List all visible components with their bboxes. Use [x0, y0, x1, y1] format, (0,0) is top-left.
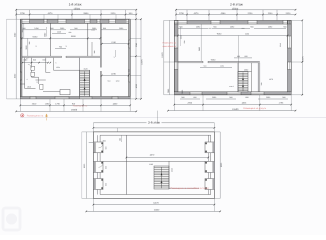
- page faint rule: [20, 117, 326, 119]
- svg-text:3460: 3460: [198, 47, 201, 51]
- plan 2 interior vertical dim line: [200, 24, 202, 61]
- plan 3 inner wall bottom: [100, 194, 211, 196]
- svg-text:1490: 1490: [119, 27, 123, 30]
- svg-text:940: 940: [128, 69, 131, 72]
- plan 3 stair enclosure: [168, 161, 170, 189]
- plan 2 interior wall vertical room divider: [257, 63, 259, 92]
- plan 3 title ticks: [156, 111, 158, 123]
- plan 1 interior wall vertical right room (double): [99, 23, 101, 67]
- svg-text:900: 900: [204, 65, 207, 68]
- svg-text:1200: 1200: [116, 79, 120, 82]
- svg-text:1490: 1490: [92, 27, 96, 30]
- svg-text:940: 940: [33, 58, 36, 61]
- plan 1 bathroom door arc: [25, 58, 29, 62]
- plan 3 right dormers: [205, 142, 214, 153]
- svg-text:600: 600: [193, 96, 196, 99]
- plan 2 right outside dimension chain: [301, 20, 303, 94]
- svg-text:1: 1: [113, 56, 114, 59]
- svg-text:15500: 15500: [232, 108, 239, 111]
- plan 1 room dimension line upper: [22, 37, 100, 39]
- svg-text:900: 900: [104, 166, 107, 169]
- svg-text:2070: 2070: [269, 78, 273, 81]
- plan 1 interior vertical dim left wall side: [23, 23, 25, 38]
- svg-text:900: 900: [250, 26, 253, 29]
- plan 2 bottom exterior wall: [174, 94, 291, 96]
- svg-text:2: 2: [35, 45, 36, 48]
- plan 3 inner wall right (double): [207, 135, 209, 194]
- svg-text:2865: 2865: [167, 89, 170, 93]
- svg-text:910: 910: [42, 58, 45, 61]
- plan 3 staircase: [154, 166, 169, 189]
- svg-text:900: 900: [50, 27, 53, 30]
- svg-text:900: 900: [282, 96, 285, 99]
- svg-text:4630: 4630: [71, 35, 77, 38]
- svg-text:9000: 9000: [83, 164, 86, 168]
- svg-text:900: 900: [213, 26, 216, 29]
- plan 1 middle room small dim: [52, 33, 66, 35]
- svg-text:900: 900: [22, 27, 25, 30]
- plan 3 left dormers: [93, 142, 103, 153]
- svg-text:www.allbest.ru/: www.allbest.ru/: [163, 45, 177, 48]
- svg-text:3240: 3240: [13, 33, 16, 37]
- plan 1 right side dimension chains: [135, 10, 137, 99]
- plan 1 top dim extension lines: [15, 10, 17, 19]
- svg-text:1490: 1490: [212, 96, 216, 99]
- svg-text:1140: 1140: [245, 32, 249, 35]
- plan 1 stair walls: [79, 58, 81, 97]
- plan 1 bathroom fixtures: [31, 66, 35, 70]
- svg-text:2440: 2440: [57, 31, 61, 34]
- plan 1 interior wall horizontal main: [22, 55, 62, 57]
- plan 3 right dimension chain: [219, 132, 221, 199]
- svg-text:15500: 15500: [154, 209, 160, 212]
- svg-text:900: 900: [103, 140, 106, 143]
- svg-text:10970: 10970: [302, 56, 305, 61]
- plan 2 big room dimension line: [178, 35, 288, 37]
- plan 1 interior wall vertical left room: [49, 23, 51, 56]
- plan 1 bathroom extra partition: [36, 79, 46, 81]
- plan 3 bottom dimension chains: [92, 198, 94, 211]
- svg-text:1490: 1490: [268, 26, 272, 29]
- svg-text:1520: 1520: [83, 68, 87, 71]
- plan 3 small dim upper left: [89, 141, 100, 143]
- plan 2 left outside dimension chains: [163, 20, 165, 94]
- plan 1 allbest watermark: [21, 114, 24, 117]
- plan 1 bottom overall dimension: [16, 110, 136, 112]
- plan 1 hall partition: [45, 58, 47, 73]
- svg-text:2-й этаж: 2-й этаж: [230, 2, 244, 6]
- svg-text:1490: 1490: [266, 96, 270, 99]
- plan 3 top dimension line: [93, 127, 214, 129]
- plan 2 top exterior wall: [174, 19, 291, 21]
- plan 3 top small vertical dim: [121, 135, 123, 142]
- plan 1 staircase: [80, 70, 90, 96]
- svg-text:740: 740: [59, 46, 62, 49]
- svg-text:4250: 4250: [13, 74, 16, 78]
- svg-text:1490: 1490: [196, 26, 200, 29]
- svg-text:7040: 7040: [217, 32, 223, 35]
- svg-text:1490: 1490: [60, 27, 64, 30]
- plan 1 top exterior wall: [20, 18, 130, 20]
- plan 2 stair left wall: [237, 63, 239, 92]
- svg-text:2540: 2540: [43, 33, 46, 37]
- svg-text:900: 900: [74, 27, 77, 30]
- svg-text:910: 910: [108, 79, 111, 82]
- svg-text:7240: 7240: [211, 58, 217, 61]
- svg-text:2240: 2240: [279, 43, 282, 47]
- svg-text:1-й этаж: 1-й этаж: [69, 2, 83, 6]
- plan 2 bottom overall dimension: [168, 110, 296, 112]
- svg-text:900: 900: [104, 183, 107, 186]
- plan 3 title 3-y etazh: [93, 122, 146, 124]
- svg-text:900: 900: [104, 147, 107, 150]
- svg-text:Размещено на www.allbest.ru/: Размещено на www.allbest.ru/ отчет: [171, 187, 210, 190]
- plan 1 bathroom walls: [24, 58, 26, 89]
- plan 1 interior wall vertical corridor: [87, 23, 89, 56]
- svg-text:910: 910: [21, 30, 24, 33]
- svg-text:14570: 14570: [153, 201, 159, 204]
- svg-text:600: 600: [237, 55, 240, 58]
- svg-text:15500: 15500: [71, 109, 78, 112]
- svg-text:пом.1: пом.1: [229, 85, 234, 88]
- svg-text:4250: 4250: [135, 84, 138, 88]
- svg-text:1520: 1520: [56, 66, 60, 69]
- plan 1 left dimension chain: [15, 10, 17, 99]
- svg-text:3: 3: [65, 45, 66, 48]
- svg-text:1430: 1430: [244, 68, 248, 71]
- svg-text:Размещено на: Размещено на: [163, 42, 177, 45]
- svg-text:Размещено на допуск: Размещено на допуск: [243, 107, 266, 110]
- plan 2 bottom dimension chain: [173, 95, 175, 111]
- svg-text:1120: 1120: [180, 35, 183, 39]
- plan 2 interior wall horizontal: [178, 60, 203, 62]
- svg-text:с.у: с.у: [36, 82, 38, 84]
- plan 1 right room dimension line: [102, 43, 129, 45]
- svg-text:600: 600: [209, 27, 212, 30]
- plan 3 left dimension chain: [85, 132, 87, 199]
- plan 2 stair extension line: [238, 36, 240, 72]
- plan 1 bottom dimension chain: [19, 99, 21, 112]
- page bottom-left faint watermark: [3, 208, 20, 230]
- svg-text:1490: 1490: [34, 27, 38, 30]
- svg-text:1180: 1180: [149, 163, 153, 166]
- plan 3 vertical wall: [125, 135, 127, 194]
- svg-text:900: 900: [181, 96, 184, 99]
- plan 1 porch rectangle: [60, 90, 70, 95]
- plan 1 dim 740: [55, 48, 66, 50]
- plan 3 inner wall left (double): [97, 135, 99, 194]
- plan 1 right exterior wall: [128, 19, 130, 99]
- plan 1 left exterior wall: [19, 19, 21, 99]
- svg-text:600: 600: [244, 55, 247, 58]
- svg-text:5140: 5140: [33, 35, 39, 38]
- svg-text:3-й этаж: 3-й этаж: [148, 121, 161, 125]
- plan 3 room dimension line: [126, 157, 208, 159]
- svg-text:3240: 3240: [135, 43, 138, 47]
- svg-text:2230: 2230: [111, 73, 117, 76]
- plan 2 left exterior wall: [173, 20, 175, 94]
- plan 1 hall lower line: [43, 91, 60, 93]
- svg-text:600: 600: [242, 27, 245, 30]
- plan 3 inner wall top: [100, 134, 211, 136]
- svg-text:600: 600: [245, 96, 248, 99]
- plan 2 right exterior wall: [287, 20, 289, 94]
- svg-text:900: 900: [179, 26, 182, 29]
- svg-text:900: 900: [283, 26, 286, 29]
- plan 3 outer contour: [93, 132, 214, 199]
- svg-text:Размещено на: Размещено на: [73, 105, 88, 108]
- plan 2 staircase: [238, 72, 248, 92]
- svg-text:1810: 1810: [27, 85, 31, 88]
- svg-text:900: 900: [229, 96, 232, 99]
- svg-text:3000: 3000: [25, 45, 28, 49]
- svg-text:10970: 10970: [161, 52, 164, 57]
- svg-text:1490: 1490: [220, 65, 224, 68]
- svg-text:1490: 1490: [230, 26, 234, 29]
- svg-text:2865: 2865: [181, 90, 184, 94]
- plan 1 lower right room dimension: [102, 75, 129, 77]
- plan 1 bottom exterior wall: [20, 98, 130, 100]
- svg-text:4: 4: [27, 78, 28, 81]
- svg-text:2620: 2620: [170, 168, 173, 172]
- svg-text:9000: 9000: [220, 163, 223, 167]
- plan 3 middle horizontal wall: [100, 160, 208, 162]
- plan 2 corridor wall: [251, 63, 253, 92]
- svg-text:10970: 10970: [140, 59, 143, 64]
- plan 1 vertical dim left room: [27, 38, 29, 56]
- plan 2 top dim extension lines: [175, 10, 177, 21]
- plan 1 interior light shaft line: [91, 42, 93, 56]
- svg-text:900: 900: [103, 27, 106, 30]
